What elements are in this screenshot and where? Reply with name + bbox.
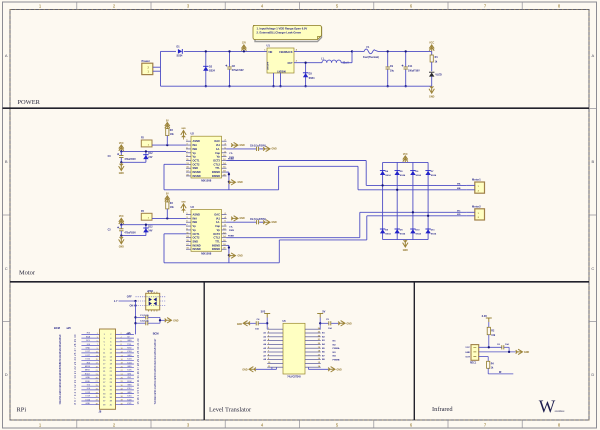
capacitor C4: [259, 322, 268, 324]
motor driver U3: [191, 210, 222, 252]
svg-text:U2: U2: [191, 132, 195, 136]
wire : translator pin row: [267, 366, 283, 368]
svg-text:GND: GND: [272, 149, 277, 151]
resistor R4: [487, 361, 490, 368]
svg-text:470uF/16V: 470uF/16V: [232, 69, 244, 72]
svg-text:SS54: SS54: [309, 77, 316, 80]
svg-text:RPi: RPi: [17, 407, 27, 414]
svg-text:10u: 10u: [390, 69, 395, 72]
jumper P: [141, 140, 152, 147]
svg-text:IA1: IA1: [216, 216, 221, 220]
jumper P: [141, 213, 152, 220]
svg-text:LM2596: LM2596: [277, 70, 286, 73]
svg-text:8 9 7 0 2 3 12 13 14: 8 9 7 0 2 3 12 13 14 21 22 23 24 25 27 2…: [73, 334, 77, 405]
wire : header pin row: [81, 348, 99, 350]
wire : IR net: [488, 373, 513, 375]
connector Motor1: [475, 182, 485, 193]
ground left top: [243, 321, 250, 326]
regulator U1: [267, 48, 294, 73]
wire : header pin row: [81, 363, 99, 365]
capacitor C5: [320, 322, 328, 324]
capacitor decoupling: [227, 148, 257, 150]
svg-text:MX1508: MX1508: [201, 178, 212, 182]
wire : header pin row: [81, 337, 99, 339]
ground motor cluster: [120, 236, 122, 240]
wire : header pin row: [81, 378, 99, 380]
svg-text:MOSI: MOSI: [85, 366, 91, 368]
svg-text:MA: MA: [457, 183, 461, 186]
wire : header pin row: [81, 356, 99, 358]
svg-text:Motor1: Motor1: [472, 178, 481, 182]
svg-text:OCT2: OCT2: [193, 162, 200, 166]
svg-text:24V: 24V: [148, 229, 153, 232]
svg-text:OCT2: OCT2: [213, 159, 220, 163]
svg-text:SS34: SS34: [416, 174, 422, 177]
svg-text:IDSC: IDSC: [127, 381, 132, 383]
wire : switch to header 5V: [135, 301, 137, 334]
wire : header pin row: [81, 370, 99, 372]
svg-text:SS34: SS34: [400, 174, 406, 177]
svg-text:SND: SND: [193, 166, 199, 170]
svg-text:Power: Power: [142, 59, 151, 63]
svg-text:GND: GND: [238, 256, 243, 258]
svg-text:Vp: Vp: [217, 155, 221, 159]
wire : lower OUT A: [227, 237, 360, 239]
svg-text:OUT: OUT: [465, 356, 470, 358]
wire : top rail to VCC column: [378, 50, 432, 52]
svg-text:Vp: Vp: [193, 224, 197, 228]
svg-text:24V: 24V: [148, 156, 153, 159]
power flag VCC: [429, 45, 434, 52]
wire : header pin row: [81, 389, 99, 391]
wire : IR out row: [479, 356, 489, 358]
ground caps: [159, 317, 161, 323]
wire : top rail D1 to U1: [184, 50, 267, 52]
svg-text:GND: GND: [127, 366, 132, 368]
svg-text:U3: U3: [191, 205, 195, 209]
wire : U1 gnd pins to bottom rail: [273, 73, 275, 86]
wire : translator pin row: [267, 332, 283, 334]
svg-text:SS24: SS24: [209, 70, 216, 73]
ground GND power: [429, 86, 434, 93]
resistor R2: [488, 322, 490, 327]
svg-text:A: A: [5, 53, 8, 58]
connector J8 RPi 40-pin header: [100, 329, 116, 409]
svg-text:SS34: SS34: [385, 174, 391, 177]
power flag 3.3V: [486, 318, 492, 322]
divider line below Motor section: [10, 281, 589, 283]
wire : header pin row: [81, 385, 99, 387]
svg-text:GND: GND: [524, 352, 529, 354]
svg-text:GND: GND: [173, 320, 178, 322]
fuse F1: [352, 50, 361, 52]
svg-text:CTL2: CTL2: [214, 162, 221, 166]
wire : jumper to chip: [152, 217, 186, 219]
svg-text:TXD: TXD: [127, 344, 132, 346]
wire : feedback rail: [294, 50, 352, 52]
svg-text:470uF/50V: 470uF/50V: [124, 158, 136, 161]
svg-text:GND: GND: [403, 250, 408, 252]
wire : translator pin row: [267, 328, 283, 330]
diode D1: [178, 49, 182, 54]
svg-text:1. InputVoltage 1 VDD Range: 1. InputVoltage 1 VDD Range:Open 6.0V: [257, 26, 308, 30]
svg-text:D12: D12: [148, 226, 153, 228]
svg-text:Cap: Cap: [215, 151, 220, 155]
wire : switch dashed contact rows: [136, 296, 166, 298]
wire : header pin row: [81, 396, 99, 398]
capacitor C10: [405, 51, 407, 66]
svg-text:5V: 5V: [166, 120, 169, 122]
svg-text:ASND: ASND: [193, 213, 200, 217]
svg-text:INSND: INSND: [193, 174, 201, 178]
power flag 3V3: [264, 314, 270, 318]
diode D10: [410, 229, 415, 233]
svg-text:MB: MB: [457, 188, 461, 190]
svg-text:SS34: SS34: [385, 233, 391, 236]
wire : upper OUT B (loop): [164, 163, 186, 165]
capacitor C6: [502, 345, 504, 349]
svg-text:Vp: Vp: [193, 228, 197, 232]
capacitor bulk: [120, 225, 122, 229]
connector Motor2: [475, 209, 485, 220]
wire : translator pin row: [267, 343, 283, 345]
led VLED: [429, 72, 434, 76]
diode D9: [395, 229, 400, 233]
wire : 5V feed to switch: [119, 300, 136, 302]
wire : cap bottom to zener: [121, 161, 146, 163]
svg-text:INSND: INSND: [193, 247, 201, 251]
wire : vcc rail to chip: [121, 224, 186, 226]
svg-text:SS34: SS34: [416, 233, 422, 236]
svg-text:BCM: BCM: [54, 326, 60, 330]
svg-text:BCM: BCM: [153, 332, 159, 336]
svg-text:Motor: Motor: [19, 270, 36, 277]
wire : translator pin row: [267, 336, 283, 338]
ground flag above chip: [181, 131, 186, 138]
svg-text:aveshare: aveshare: [555, 410, 566, 413]
svg-text:INSND: INSND: [193, 243, 201, 247]
svg-text:GND: GND: [240, 145, 245, 147]
motor driver U2: [191, 136, 222, 178]
wire : inductor to feedback node: [341, 62, 352, 64]
svg-text:12V: 12V: [242, 42, 247, 45]
svg-text:3V3: 3V3: [261, 310, 266, 314]
svg-text:VCC: VCC: [429, 42, 434, 45]
svg-text:C11: C11: [408, 65, 413, 68]
ground diode array: [404, 240, 406, 243]
wire : header pin row: [81, 382, 99, 384]
ground right pin upper: [231, 142, 238, 147]
wire : translator pin row: [267, 347, 283, 349]
capacitor C9: [387, 51, 389, 66]
wire : translator pin row: [267, 351, 283, 353]
svg-text:FEEDBACK: FEEDBACK: [279, 51, 293, 54]
ground motor cluster: [120, 162, 122, 166]
svg-text:SS34: SS34: [400, 233, 406, 236]
svg-text:GND: GND: [337, 369, 342, 371]
svg-text:SS34: SS34: [431, 174, 437, 177]
ground bottom right lower: [227, 244, 229, 246]
power flag VCC pullup: [165, 196, 170, 203]
svg-text:GND: GND: [86, 403, 91, 405]
svg-text:TTL: TTL: [215, 240, 220, 244]
svg-text:GND: GND: [429, 96, 435, 99]
svg-text:Cap: Cap: [215, 224, 220, 228]
svg-text:FDBK: FDBK: [228, 158, 234, 160]
svg-text:INSND: INSND: [193, 170, 201, 174]
flyback diode array bottom bus: [383, 239, 429, 241]
vertical divider RPi / Level Translator: [203, 282, 205, 420]
svg-text:INA: INA: [193, 143, 198, 147]
wire : header pin row: [81, 345, 99, 347]
switch SW1: [146, 293, 160, 310]
wire : jumper to chip: [152, 144, 186, 146]
inductor L1: [322, 60, 341, 63]
svg-text:VCC: VCC: [465, 347, 470, 349]
svg-text:REC1: REC1: [470, 363, 477, 365]
svg-text:wPi: wPi: [67, 326, 72, 330]
svg-text:MD: MD: [457, 214, 461, 216]
wire : OUT net: [294, 62, 322, 64]
svg-text:VIN: VIN: [268, 51, 272, 54]
connector IR receiver: [471, 345, 479, 361]
wire : translator pin row: [267, 340, 283, 342]
power flag VCC motor: [119, 218, 124, 225]
svg-text:Vp: Vp: [193, 155, 197, 159]
svg-text:1A.: 1A.: [216, 147, 220, 151]
svg-text:SDA.1 SCL.1 GPIO.7 GPIO.0 GPIO: SDA.1 SCL.1 GPIO.7 GPIO.0 GPIO.2 GPIO.3 …: [58, 334, 62, 405]
svg-text:D: D: [591, 372, 594, 377]
svg-text:C: C: [5, 266, 8, 271]
svg-text:INSND: INSND: [212, 247, 220, 251]
svg-text:VCC: VCC: [119, 143, 124, 145]
svg-text:C: C: [591, 266, 594, 271]
power flag 5V: [317, 314, 323, 318]
svg-text:FDBK: FDBK: [228, 235, 234, 237]
svg-text:15 16 1 4 5 6 10 11 31 26 27 2: 15 16 1 4 5 6 10 11 31 26 27 28 29 24 25…: [136, 338, 140, 405]
svg-text:GND: GND: [181, 128, 186, 130]
svg-text:3.3V: 3.3V: [482, 314, 488, 318]
svg-text:IA1: IA1: [216, 143, 221, 147]
svg-text:U1: U1: [267, 44, 271, 48]
svg-text:SDA: SDA: [86, 335, 91, 338]
note box: [255, 28, 322, 42]
wire : IR vcc row: [479, 346, 502, 348]
capacitor decoupling: [227, 221, 257, 223]
svg-text:GND: GND: [86, 377, 91, 379]
wire : diode column 2: [396, 162, 398, 239]
diode D5: [395, 171, 400, 175]
wire : translator pin row: [267, 362, 283, 364]
flyback diode array top bus: [383, 161, 429, 163]
svg-text:MC: MC: [457, 211, 461, 213]
resistor pullup: [166, 128, 168, 130]
junction dots motor nets: [381, 184, 383, 186]
svg-text:C9 (0.1uF/50V): C9 (0.1uF/50V): [250, 146, 266, 148]
resistor pullup: [166, 201, 168, 203]
svg-text:uPAD: uPAD: [147, 290, 153, 293]
svg-text:INB: INB: [193, 220, 198, 224]
svg-text:PWMB: PWMB: [333, 360, 340, 362]
svg-text:Level Translator: Level Translator: [209, 406, 252, 413]
svg-text:A: A: [591, 53, 594, 58]
svg-text:Vp: Vp: [217, 228, 221, 232]
svg-text:MISO: MISO: [85, 370, 91, 372]
svg-text:ASND: ASND: [193, 139, 200, 143]
svg-text:470uF/50V: 470uF/50V: [124, 231, 136, 234]
wire : header pin row: [81, 341, 99, 343]
svg-text:C1 (103): C1 (103): [140, 315, 149, 317]
svg-text:GND: GND: [86, 348, 91, 350]
svg-text:Infrared: Infrared: [432, 406, 453, 413]
vertical divider Level Translator / Infrared: [413, 282, 415, 420]
svg-text:PWMA: PWMA: [333, 347, 340, 350]
ground bottom right: [307, 367, 309, 369]
svg-text:VCC: VCC: [119, 216, 124, 218]
svg-text:OAC: OAC: [214, 213, 220, 217]
svg-text:INSND: INSND: [212, 243, 220, 247]
capacitor bulk: [120, 151, 122, 155]
capacitor C2: [134, 322, 136, 324]
svg-text:100uF/16V: 100uF/16V: [408, 69, 420, 72]
ground right top: [338, 321, 345, 326]
svg-text:GND: GND: [347, 323, 352, 325]
svg-text:2. ExternalDLLCharger Leak-Gr: 2. ExternalDLLCharger Leak-Green: [257, 30, 302, 34]
svg-text:GND: GND: [127, 340, 132, 342]
svg-text:B: B: [5, 159, 8, 164]
svg-text:VLED: VLED: [435, 73, 442, 76]
ground bottom right upper: [227, 171, 229, 173]
diode D8: [380, 229, 385, 233]
svg-text:INB: INB: [193, 147, 198, 151]
wire : header pin row: [81, 352, 99, 354]
wire : header pin row: [81, 404, 99, 406]
level translator U5: [283, 323, 305, 374]
diode D3: [305, 63, 307, 86]
power flag VCC diode array: [403, 156, 408, 163]
svg-text:OCT1: OCT1: [193, 159, 200, 163]
zener D2: [205, 51, 207, 86]
svg-text:B: B: [591, 159, 594, 164]
svg-text:POWER: POWER: [18, 99, 41, 106]
svg-text:D12: D12: [148, 153, 153, 155]
svg-text:GND: GND: [238, 182, 243, 184]
svg-text:SND: SND: [193, 240, 199, 244]
diode D4: [380, 171, 385, 175]
svg-text:GND: GND: [119, 246, 124, 248]
wire : header pin row: [81, 374, 99, 376]
wire : diode column 1: [382, 162, 384, 239]
wire : header pin row: [81, 393, 99, 395]
svg-text:5V: 5V: [322, 310, 325, 314]
wire : header pin row: [81, 333, 99, 335]
svg-text:GND: GND: [242, 369, 247, 371]
wire : vcc rail to chip: [121, 150, 186, 152]
wire : header pin row: [81, 367, 99, 369]
svg-text:GND: GND: [181, 202, 186, 204]
svg-text:CTL2: CTL2: [214, 236, 221, 240]
ground right pin lower: [231, 216, 238, 221]
connector P1 Power: [142, 63, 153, 74]
diode D6: [410, 171, 415, 175]
svg-text:Fast(Thermal): Fast(Thermal): [363, 56, 379, 59]
wire : cap bottom to zener: [121, 235, 146, 237]
svg-text:TTL: TTL: [215, 166, 220, 170]
zener diode: [145, 225, 147, 236]
svg-text:Vp: Vp: [193, 151, 197, 155]
wire : upper OUT A (long): [227, 160, 367, 162]
wire : lower OUT B (loop): [164, 233, 186, 235]
wire : bottom rail: [161, 85, 432, 87]
svg-text:PWM: PWM: [229, 230, 234, 232]
svg-text:TxD RxD GPIO.1 GPIO.4 GPIO.5 G: TxD RxD GPIO.1 GPIO.4 GPIO.5 GPIO.6 CE0 …: [153, 338, 157, 405]
svg-text:C9 (0.1uF/50V): C9 (0.1uF/50V): [250, 219, 266, 221]
svg-text:wPi: wPi: [127, 332, 132, 336]
svg-text:OAC: OAC: [214, 139, 220, 143]
wire : diode column 3: [412, 162, 414, 239]
svg-text:GND: GND: [237, 324, 242, 326]
svg-text:OFF: OFF: [127, 296, 132, 299]
svg-text:SS34: SS34: [431, 233, 437, 236]
svg-text:IDSD: IDSD: [85, 381, 90, 383]
svg-text:J-Y: J-Y: [114, 301, 118, 303]
power flag VCC motor: [119, 145, 124, 152]
svg-text:INSND: INSND: [212, 174, 220, 178]
svg-text:ON/OFF: ON/OFF: [268, 61, 270, 70]
diode D7: [425, 171, 430, 175]
svg-text:GND: GND: [465, 352, 470, 354]
svg-text:C2 (104): C2 (104): [140, 320, 149, 323]
svg-text:GND: GND: [127, 355, 132, 357]
svg-text:OUT: OUT: [288, 62, 294, 65]
ground flag above chip lower: [181, 204, 186, 211]
capacitor C8: [229, 51, 231, 66]
svg-text:ON: ON: [130, 305, 134, 308]
svg-text:OCT2: OCT2: [213, 232, 220, 236]
wire : translator pin row: [267, 359, 283, 361]
svg-text:W: W: [539, 396, 556, 416]
wire : header pin row: [81, 359, 99, 361]
wire : translator pin row: [267, 355, 283, 357]
wire : diode column 4: [427, 162, 429, 239]
svg-text:RXD: RXD: [127, 348, 132, 350]
svg-text:GND: GND: [127, 385, 132, 387]
wire : header pin row: [81, 400, 99, 402]
wire : IR gnd row: [479, 351, 517, 353]
capacitor C1: [134, 316, 136, 318]
svg-text:SCLK: SCLK: [85, 373, 91, 375]
svg-text:GND: GND: [119, 173, 124, 175]
ground bottom left: [271, 367, 273, 369]
svg-text:INA: INA: [193, 216, 198, 220]
svg-text:GND: GND: [127, 392, 132, 394]
svg-text:OCT2: OCT2: [193, 236, 200, 240]
svg-text:GND: GND: [240, 218, 245, 220]
svg-text:5V: 5V: [166, 194, 169, 196]
wire : connector pins to input bus: [153, 66, 161, 68]
svg-text:1A.: 1A.: [216, 220, 220, 224]
svg-text:74LVC8T245: 74LVC8T245: [287, 375, 301, 378]
svg-text:Motor2: Motor2: [472, 204, 481, 208]
svg-text:MX1508: MX1508: [201, 252, 212, 256]
svg-text:INSND: INSND: [212, 170, 220, 174]
svg-text:OCT1: OCT1: [193, 232, 200, 236]
wire : top rail input: [161, 50, 177, 52]
resistor R1: [431, 51, 433, 55]
svg-text:IR: IR: [499, 371, 502, 374]
zener diode: [145, 151, 147, 162]
divider line below POWER section: [3, 107, 590, 109]
